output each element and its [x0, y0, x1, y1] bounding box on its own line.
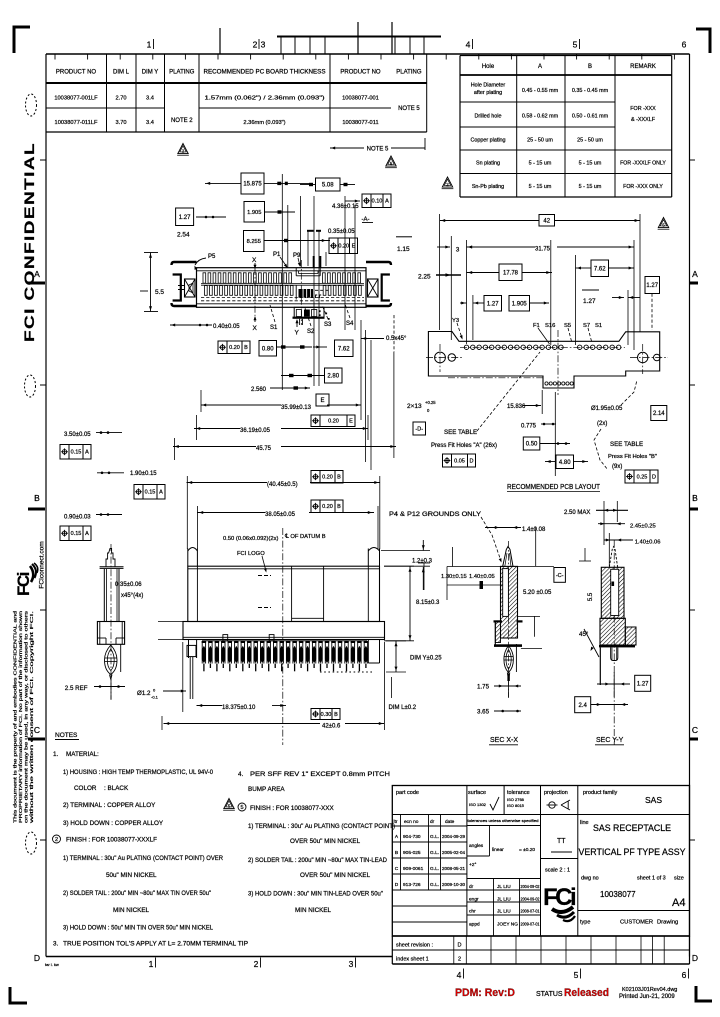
- sheet border: [46, 53, 690, 55]
- svg-text:Drilled hole: Drilled hole: [475, 114, 502, 120]
- sec x-x right edge line: [515, 644, 517, 672]
- svg-text:G.L.: G.L.: [430, 834, 439, 840]
- svg-text:S1: S1: [595, 323, 602, 329]
- svg-text:913-726: 913-726: [403, 882, 421, 888]
- front view upper contact row: [203, 273, 206, 283]
- sec x-x step dim lines: [518, 615, 541, 617]
- svg-text:1.27: 1.27: [646, 283, 658, 289]
- front view right bracket: [366, 262, 391, 265]
- svg-text:Ø1.2: Ø1.2: [137, 690, 151, 697]
- dashed ellipse lower-left margin: [26, 832, 37, 854]
- svg-text:JOEY NG: JOEY NG: [497, 922, 518, 928]
- corner mark top-right: [696, 29, 710, 53]
- svg-text:5 - 15 um: 5 - 15 um: [529, 161, 552, 167]
- svg-text:D: D: [692, 953, 698, 963]
- svg-text:B: B: [244, 345, 248, 351]
- svg-text:4.80: 4.80: [559, 460, 571, 466]
- svg-text:D: D: [470, 458, 474, 464]
- svg-text:2004-09-02: 2004-09-02: [521, 897, 541, 902]
- svg-text:size: size: [674, 876, 684, 882]
- svg-text:1) TERMINAL : 30u" Au PLATING: 1) TERMINAL : 30u" Au PLATING (CONTACT P…: [248, 823, 395, 830]
- svg-text:B: B: [334, 712, 338, 718]
- svg-text:D: D: [458, 943, 462, 949]
- svg-text:2.54: 2.54: [177, 232, 190, 239]
- svg-text:8.255: 8.255: [247, 239, 261, 245]
- svg-text:1.75: 1.75: [477, 684, 490, 691]
- svg-text:15.836: 15.836: [507, 404, 526, 410]
- pcb dim 4.80 box: [556, 455, 574, 469]
- svg-text:15.875: 15.875: [243, 182, 262, 188]
- svg-text:-C-: -C-: [556, 573, 564, 579]
- dim 0.80 box below front view: [259, 341, 277, 357]
- svg-text:0.775: 0.775: [521, 424, 537, 430]
- sec x-x eye of needle: [504, 646, 514, 673]
- elevation pins: [202, 641, 206, 643]
- sec x-x body hatched: [501, 566, 518, 638]
- sec y-y right ext block: [625, 627, 636, 645]
- elevation pin rail: [202, 640, 367, 642]
- svg-text:0.90±0.03: 0.90±0.03: [64, 515, 91, 521]
- svg-text:0.5x45°: 0.5x45°: [386, 336, 407, 342]
- svg-text:2004-09-29: 2004-09-29: [442, 834, 466, 839]
- svg-text:2.560: 2.560: [251, 387, 267, 393]
- hole plating table grid: [460, 55, 672, 57]
- pin detail right edge line: [120, 644, 122, 672]
- svg-text:1: 1: [147, 40, 152, 50]
- triangle note near plating table: [442, 177, 452, 187]
- svg-text:-D-: -D-: [415, 426, 423, 432]
- svg-text:17.78: 17.78: [503, 270, 519, 276]
- frame 0.15 A second: [134, 485, 165, 500]
- svg-text:RECOMMENDED PCB LAYOUT: RECOMMENDED PCB LAYOUT: [507, 484, 601, 491]
- title block bottom rows: [392, 935, 689, 937]
- corner mark bottom-left: [10, 987, 27, 1003]
- svg-text:1.57mm (0.062") / 2.36mm (0.09: 1.57mm (0.062") / 2.36mm (0.093"): [205, 96, 325, 102]
- svg-text:1.40±0.06: 1.40±0.06: [635, 540, 661, 546]
- svg-text:B: B: [692, 493, 698, 503]
- triangle note 2 left: [178, 144, 188, 154]
- svg-text:42±0.6: 42±0.6: [322, 724, 341, 730]
- front view bottom tab with bumps: [294, 307, 324, 318]
- svg-text:2: 2: [254, 959, 259, 969]
- svg-text:G.L.: G.L.: [430, 882, 439, 888]
- dashed ellipse mid-left margin: [25, 375, 36, 397]
- svg-text:FCIconnect.com: FCIconnect.com: [39, 541, 46, 588]
- svg-text:904-730: 904-730: [403, 834, 421, 840]
- svg-text:FINISH : FOR 10038077-XXX: FINISH : FOR 10038077-XXX: [250, 805, 334, 812]
- svg-text:D: D: [395, 882, 399, 888]
- svg-text:NOTES: NOTES: [55, 732, 78, 739]
- svg-text:B: B: [588, 64, 592, 70]
- svg-text:Hole: Hole: [482, 64, 495, 70]
- svg-text:ISO 8015: ISO 8015: [507, 803, 525, 808]
- svg-text:38.05±0.05: 38.05±0.05: [265, 512, 296, 518]
- svg-text:1) TERMINAL : 30u" Au PLATING: 1) TERMINAL : 30u" Au PLATING (CONTACT P…: [63, 855, 223, 862]
- svg-text:3.4: 3.4: [146, 96, 154, 102]
- svg-text:2009-10-30: 2009-10-30: [442, 882, 466, 887]
- pin detail base block: [97, 622, 124, 645]
- svg-text:Sn plating: Sn plating: [476, 161, 500, 167]
- svg-text:6: 6: [682, 40, 687, 50]
- svg-text:1: 1: [149, 959, 154, 969]
- elevation left hold-down pin: [187, 549, 189, 567]
- svg-text:4: 4: [457, 970, 462, 980]
- svg-text:FOR -XXX ONLY: FOR -XXX ONLY: [623, 184, 663, 190]
- sec y-y dim 1.27: [635, 675, 651, 691]
- svg-text:3.4: 3.4: [146, 120, 154, 126]
- svg-text:10038077-011LF: 10038077-011LF: [55, 120, 98, 126]
- pcb position frame B: [625, 470, 658, 483]
- svg-text:X: X: [252, 257, 257, 264]
- svg-text:35.99±0.13: 35.99±0.13: [281, 405, 312, 411]
- svg-text:2004-09-02: 2004-09-02: [521, 884, 541, 889]
- svg-text:ecn no: ecn no: [404, 820, 419, 825]
- svg-text:on the document may be used, i: on the document may be used, in any way,…: [24, 610, 29, 823]
- svg-text:FCi: FCi: [14, 572, 33, 596]
- svg-text:P5: P5: [208, 254, 216, 260]
- svg-text:0.15: 0.15: [71, 531, 82, 537]
- svg-text:Copper plating: Copper plating: [470, 138, 505, 144]
- svg-text:3.65: 3.65: [477, 709, 490, 716]
- svg-text:FOR -XXXLF ONLY: FOR -XXXLF ONLY: [620, 161, 666, 167]
- svg-text:E: E: [320, 398, 324, 404]
- pcb layout dim 1.27 ref: [582, 289, 599, 291]
- svg-text:4.: 4.: [238, 771, 244, 778]
- svg-text:Hole Diameter: Hole Diameter: [471, 83, 506, 89]
- svg-text:after plating: after plating: [474, 90, 502, 96]
- svg-text:S7: S7: [583, 323, 590, 329]
- elevation logo dash marks: [258, 575, 271, 577]
- svg-text:STATUS: STATUS: [536, 991, 563, 998]
- svg-text:0.80: 0.80: [262, 346, 274, 352]
- svg-text:DIM L±0.2: DIM L±0.2: [389, 705, 417, 711]
- pin detail eye of needle: [105, 645, 118, 675]
- pcb dim 0.50 box: [523, 437, 540, 450]
- svg-text:0.20: 0.20: [322, 475, 333, 481]
- svg-text:A: A: [385, 199, 389, 205]
- svg-text:5.20 ±0.05: 5.20 ±0.05: [523, 590, 552, 596]
- svg-text:0.20: 0.20: [322, 504, 333, 510]
- svg-text:42: 42: [543, 218, 550, 224]
- front view overall height dim 5.5: [144, 252, 158, 254]
- svg-text:A: A: [85, 450, 89, 456]
- svg-text:TRUE POSITION TOL'S APPLY AT L: TRUE POSITION TOL'S APPLY AT L= 2.70MM T…: [63, 941, 248, 948]
- svg-text:date: date: [445, 819, 455, 825]
- svg-text:S1: S1: [270, 325, 278, 331]
- frame 0.15 A first: [60, 445, 91, 460]
- svg-text:50u" MIN NICKEL: 50u" MIN NICKEL: [106, 872, 157, 879]
- section cut lines X and Y: [254, 268, 256, 316]
- svg-text:1.30±0.15: 1.30±0.15: [441, 574, 467, 580]
- svg-text:2) SOLDER TAIL : 200u" MIN ~80: 2) SOLDER TAIL : 200u" MIN ~80u" MAX TIN…: [63, 890, 211, 897]
- svg-text:OVER 50u" MIN NICKEL: OVER 50u" MIN NICKEL: [290, 838, 361, 845]
- svg-text:2: 2: [55, 837, 58, 843]
- long extension lines below front view: [360, 320, 362, 420]
- elevation body: [188, 566, 380, 621]
- svg-text:PRODUCT NO: PRODUCT NO: [340, 70, 381, 76]
- svg-text:COLOR: COLOR: [74, 785, 97, 792]
- datum E box: [316, 394, 329, 406]
- top fold ruler: [277, 36, 441, 38]
- svg-text:2.5 REF: 2.5 REF: [65, 685, 88, 692]
- svg-text:S5: S5: [564, 323, 571, 329]
- svg-text:2: 2: [253, 40, 258, 50]
- elevation hold-down lower right: [367, 640, 369, 664]
- title block verticals: [466, 786, 468, 937]
- pcb dim 2.14 box: [651, 406, 667, 421]
- pcb layout dim 42 box: [539, 215, 555, 227]
- svg-text:0.50 (0.06x0.092)(2x): 0.50 (0.06x0.092)(2x): [223, 536, 278, 542]
- svg-text:appd: appd: [469, 922, 480, 928]
- elevation hold-down lower left: [188, 640, 190, 659]
- svg-text:SEC X-X: SEC X-X: [490, 737, 518, 744]
- frame 0.20 B (40.45): [311, 471, 343, 484]
- svg-text:2: 2: [458, 957, 461, 963]
- svg-text:3: 3: [456, 247, 460, 254]
- svg-text:P4 & P12 GROUNDS ONLY: P4 & P12 GROUNDS ONLY: [389, 512, 481, 518]
- svg-text:OVER 50u" MIN NICKEL: OVER 50u" MIN NICKEL: [300, 872, 371, 879]
- svg-text:2.50 MAX: 2.50 MAX: [564, 510, 590, 516]
- front view extension lines vertical: [281, 174, 283, 390]
- pcb hole row A: [464, 345, 468, 349]
- svg-text:5 - 15 um: 5 - 15 um: [579, 184, 602, 190]
- svg-text:Press Fit Holes "B": Press Fit Holes "B": [608, 454, 657, 460]
- svg-text:0.20: 0.20: [229, 345, 240, 351]
- svg-text:1.27: 1.27: [487, 301, 499, 307]
- pcb big hole right: [638, 352, 648, 362]
- svg-text:1.27: 1.27: [583, 298, 596, 305]
- svg-text:sheet revision :: sheet revision :: [396, 943, 433, 949]
- svg-text:2×13: 2×13: [407, 403, 422, 410]
- svg-text:2.70: 2.70: [115, 96, 126, 102]
- svg-text:NOTE 5: NOTE 5: [367, 147, 389, 153]
- svg-text:0.58 - 0.62 mm: 0.58 - 0.62 mm: [522, 114, 559, 120]
- svg-text:dwg no: dwg no: [581, 876, 599, 882]
- svg-text:dr: dr: [469, 884, 474, 890]
- svg-text:45.75: 45.75: [256, 446, 272, 452]
- svg-text:G.L.: G.L.: [430, 850, 439, 856]
- front view body outline: [197, 268, 367, 308]
- note 5 finish: [224, 799, 234, 809]
- note 5 bracket under table: [330, 147, 364, 149]
- svg-text:(2x): (2x): [597, 421, 607, 427]
- svg-text:FCI CONFIDENTIAL: FCI CONFIDENTIAL: [22, 142, 37, 342]
- front view dim 15.875 box: [241, 173, 264, 194]
- pcb outline: [428, 332, 659, 389]
- dim 7.62 box below front view: [335, 340, 354, 357]
- elevation base slab: [183, 622, 385, 640]
- zone boundary ticks: [690, 282, 698, 285]
- svg-text:B: B: [34, 493, 40, 503]
- corner mark top-left: [14, 27, 30, 53]
- svg-text:PER SFF REV 1" EXCEPT 0.8mm PI: PER SFF REV 1" EXCEPT 0.8mm PITCH: [250, 771, 391, 778]
- svg-text:3.50±0.05: 3.50±0.05: [64, 432, 91, 438]
- svg-text:+2°: +2°: [469, 862, 476, 868]
- svg-text:ISO 1302: ISO 1302: [469, 802, 487, 807]
- pcb big hole left: [435, 352, 446, 363]
- svg-text:℄ OF DATUM B: ℄ OF DATUM B: [284, 534, 326, 540]
- svg-text:PLATING: PLATING: [396, 70, 422, 76]
- svg-text:F1: F1: [533, 323, 540, 329]
- pcb tab holes: [545, 382, 548, 385]
- svg-text:10038077-011: 10038077-011: [342, 120, 378, 126]
- svg-text:1) HOUSING : HIGH TEMP THERMOP: 1) HOUSING : HIGH TEMP THERMOPLASTIC, UL…: [63, 769, 213, 776]
- svg-text:5: 5: [573, 40, 578, 50]
- svg-text:SAS: SAS: [645, 795, 662, 805]
- svg-text:A: A: [692, 269, 698, 279]
- front view left bracket: [172, 262, 197, 265]
- svg-text:FOR -XXX: FOR -XXX: [630, 106, 656, 112]
- svg-text:TT: TT: [557, 838, 566, 845]
- svg-text:2.45±0.25: 2.45±0.25: [630, 524, 656, 530]
- svg-text:2.36mm (0.093"): 2.36mm (0.093"): [243, 120, 285, 126]
- svg-text:B: B: [395, 850, 398, 856]
- svg-text:Y3: Y3: [452, 318, 459, 324]
- front view lower dashed line: [201, 297, 364, 299]
- triangle note 5 pcb: [658, 218, 668, 228]
- pcb layout dim 1.27 right box: [645, 277, 660, 294]
- svg-text:S4: S4: [346, 321, 354, 327]
- front view keyway notch: [295, 268, 297, 276]
- svg-text:DIM Y±0.25: DIM Y±0.25: [410, 656, 442, 662]
- sec x-x tip: [503, 547, 513, 567]
- svg-text:JL LIU: JL LIU: [497, 909, 511, 915]
- svg-text:dr: dr: [430, 819, 435, 825]
- frame 0.15 A third: [60, 526, 91, 541]
- svg-text:31.75: 31.75: [535, 247, 551, 253]
- sec x-x tip dims 1.30 1.40: [447, 566, 503, 568]
- svg-text:sheet 1 of 3: sheet 1 of 3: [637, 876, 666, 882]
- corner mark bottom-right: [696, 986, 712, 1001]
- svg-text:PRODUCT NO: PRODUCT NO: [56, 70, 97, 76]
- svg-text:(40.45±0.5): (40.45±0.5): [267, 482, 298, 488]
- svg-text:5.5: 5.5: [588, 592, 594, 601]
- dashed ellipse top-left margin: [26, 94, 37, 116]
- sec y-y centerline: [613, 540, 615, 745]
- svg-text:2009-07-01: 2009-07-01: [521, 922, 541, 927]
- svg-text:= ±0.20: = ±0.20: [519, 847, 535, 853]
- svg-text:6: 6: [682, 970, 687, 980]
- pcb bottom dashdot line: [448, 377, 545, 379]
- svg-text:MIN NICKEL: MIN NICKEL: [295, 907, 332, 914]
- pcb layout dim 1.27 box: [484, 296, 502, 312]
- position frame 0.20 E mid: [311, 415, 355, 427]
- svg-text:A4: A4: [672, 897, 685, 909]
- sec x-x contact slot: [503, 569, 509, 617]
- svg-text:P1: P1: [273, 252, 281, 258]
- svg-text:A: A: [538, 64, 542, 70]
- svg-text:part code: part code: [396, 790, 419, 796]
- pcb layout dim 17.78 box: [499, 264, 522, 281]
- svg-text:5: 5: [574, 970, 579, 980]
- svg-text:S16: S16: [545, 323, 555, 329]
- svg-text:S2: S2: [307, 329, 315, 335]
- svg-text:SEC Y-Y: SEC Y-Y: [596, 737, 624, 744]
- signoff table: [467, 878, 541, 880]
- svg-text:1.27: 1.27: [637, 681, 649, 687]
- svg-text:3: 3: [349, 959, 354, 969]
- svg-text:linear: linear: [492, 847, 504, 853]
- svg-text:Sn-Pb plating: Sn-Pb plating: [472, 184, 504, 190]
- svg-text:D: D: [652, 474, 656, 480]
- svg-text:3.: 3.: [53, 941, 59, 948]
- svg-text:1.40±0.05: 1.40±0.05: [469, 574, 495, 580]
- svg-text:0.20: 0.20: [328, 419, 339, 425]
- svg-text:2008-05-21: 2008-05-21: [442, 866, 466, 871]
- svg-text:MATERIAL:: MATERIAL:: [66, 751, 99, 758]
- pcb position frame A: [443, 454, 476, 467]
- dim 42.06 with frame: [311, 709, 340, 720]
- svg-text:Ø1.95±0.05: Ø1.95±0.05: [591, 406, 623, 412]
- svg-text:0.30: 0.30: [321, 712, 332, 718]
- front view dim 8.255 box: [244, 231, 265, 252]
- svg-text:Press Fit Holes "A" (26x): Press Fit Holes "A" (26x): [431, 443, 497, 449]
- front view right hold-down cross square: [368, 279, 379, 297]
- svg-text:+0.25: +0.25: [425, 400, 436, 405]
- elevation centerline: [282, 528, 284, 745]
- title block outer: [392, 786, 689, 937]
- svg-text:36.19±0.05: 36.19±0.05: [240, 428, 271, 434]
- elevation right hold-down pin: [367, 549, 369, 567]
- svg-text:scale 2 : 1: scale 2 : 1: [545, 868, 570, 874]
- svg-text:3) HOLD DOWN : COPPER ALLOY: 3) HOLD DOWN : COPPER ALLOY: [63, 820, 164, 827]
- front view left hold-down cross square: [185, 279, 196, 297]
- sec y-y solder peg: [611, 647, 618, 660]
- svg-text:Printed Jun-21, 2009: Printed Jun-21, 2009: [619, 994, 675, 1000]
- pin detail centerline: [110, 544, 112, 700]
- svg-text:SEE TABLE: SEE TABLE: [444, 429, 477, 436]
- svg-text:0.45 - 0.55 mm: 0.45 - 0.55 mm: [522, 88, 559, 94]
- svg-text:0.10: 0.10: [372, 199, 383, 205]
- svg-text:1.: 1.: [53, 751, 59, 758]
- svg-text:0.50 - 0.61 mm: 0.50 - 0.61 mm: [572, 114, 609, 120]
- svg-text:PDM: Rev:D: PDM: Rev:D: [455, 987, 515, 999]
- triangle note 5 under table: [386, 156, 396, 166]
- svg-text:3) HOLD DOWN : 50u" MIN TIN OV: 3) HOLD DOWN : 50u" MIN TIN OVER 50u" MI…: [63, 925, 213, 932]
- sec y-y tip: [609, 547, 617, 568]
- note 2 finish: [53, 835, 61, 843]
- svg-text:tolerances unless otherwise sp: tolerances unless otherwise specified: [468, 819, 539, 823]
- front view dim 5.08 box: [316, 178, 341, 191]
- svg-text:1.90±0.15: 1.90±0.15: [130, 471, 157, 477]
- svg-text:-0.1: -0.1: [151, 695, 159, 700]
- elevation inner section lines: [291, 566, 293, 621]
- svg-text:ISO 2768: ISO 2768: [507, 797, 525, 802]
- svg-text:E: E: [349, 419, 353, 425]
- sec y-y dim 2.4: [575, 697, 591, 713]
- svg-text:& -XXXLF: & -XXXLF: [631, 117, 656, 123]
- svg-text:: BLACK: : BLACK: [104, 785, 129, 792]
- svg-text:2.80: 2.80: [327, 374, 339, 380]
- svg-text:5: 5: [240, 805, 243, 811]
- svg-text:0.05: 0.05: [454, 458, 465, 464]
- svg-text:1.905: 1.905: [247, 210, 261, 216]
- svg-text:B: B: [337, 475, 341, 481]
- svg-text:10038077: 10038077: [600, 890, 636, 899]
- elevation pin tip dotted line: [320, 671, 372, 673]
- front view dim 1.15 ref: [396, 236, 412, 238]
- svg-text:C: C: [395, 866, 399, 872]
- top border division ticks: [54, 54, 56, 60]
- svg-text:1.2±0.3: 1.2±0.3: [412, 559, 433, 565]
- svg-text:B: B: [337, 504, 341, 510]
- svg-text:BUMP AREA: BUMP AREA: [248, 786, 285, 793]
- svg-text:line: line: [580, 820, 589, 826]
- svg-text:D: D: [34, 953, 40, 963]
- svg-text:DIM L: DIM L: [113, 70, 130, 76]
- svg-text:A: A: [159, 490, 163, 496]
- svg-text:JL LIU: JL LIU: [497, 884, 511, 890]
